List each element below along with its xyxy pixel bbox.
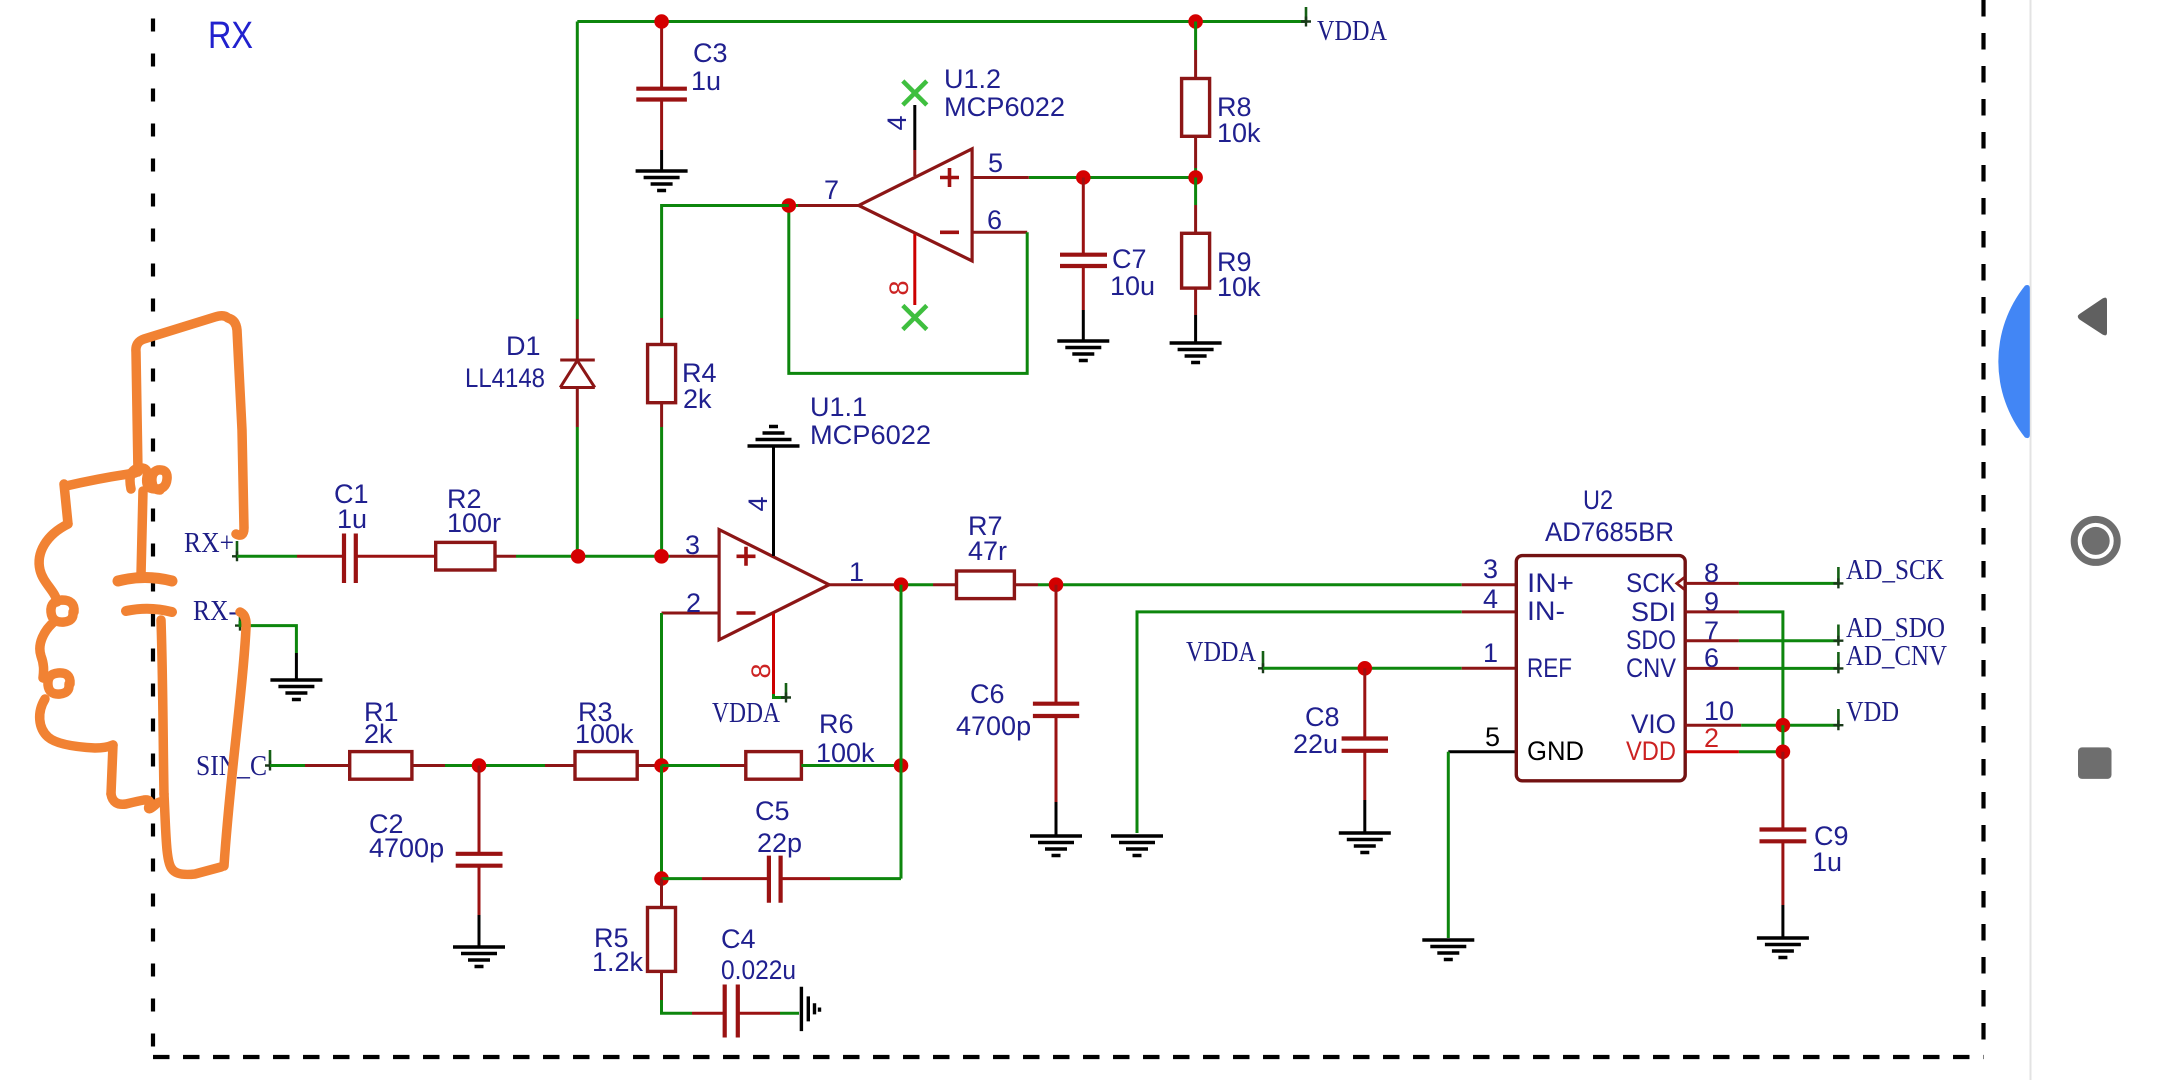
diode D1 xyxy=(560,319,595,427)
ground C9 xyxy=(1757,938,1809,958)
svg-text:1u: 1u xyxy=(337,504,367,534)
svg-text:C3: C3 xyxy=(693,38,728,68)
resistor R4 xyxy=(648,318,676,427)
node AD_SDO tick xyxy=(1837,625,1840,643)
ground C8 xyxy=(1339,833,1391,853)
pin 8 U1.1 xyxy=(772,614,775,695)
sketch tall box xyxy=(136,316,244,535)
sheet border left xyxy=(151,0,155,1056)
svg-text:4: 4 xyxy=(743,496,773,511)
pin 8 U1.2 xyxy=(913,234,916,305)
ground RX- xyxy=(270,680,322,700)
svg-text:10u: 10u xyxy=(1110,271,1155,301)
pin 4 U1.1 xyxy=(772,446,775,556)
svg-text:REF: REF xyxy=(1527,653,1572,683)
pin 1 stub U1.1 xyxy=(829,583,896,586)
sketch coil bumps xyxy=(39,524,68,602)
pin 10 VIO stub xyxy=(1685,724,1741,727)
wire REF stub xyxy=(1462,667,1517,670)
junction RX+ D1 xyxy=(571,549,586,564)
sheet border right xyxy=(1981,0,1985,1056)
wire R1 to R3 xyxy=(445,764,545,767)
junction R7 C6 xyxy=(1049,577,1064,592)
node AD_CNV tick xyxy=(1837,652,1840,670)
wire pin2 down xyxy=(660,613,663,766)
ground U2 GND xyxy=(1422,940,1474,960)
svg-text:1u: 1u xyxy=(1812,847,1842,877)
wire left rail down to C5 xyxy=(660,766,663,879)
sketch right curve xyxy=(224,612,246,866)
wire GND down xyxy=(1447,752,1450,938)
svg-text:AD_SCK: AD_SCK xyxy=(1846,554,1944,586)
svg-text:0.022u: 0.022u xyxy=(721,955,796,985)
svg-text:2: 2 xyxy=(686,588,701,618)
junction C7 top xyxy=(1076,170,1091,185)
wire pin8 VDDA tick xyxy=(774,694,787,698)
minus sign U1.2 xyxy=(940,231,959,235)
wire R4 to RX+ node xyxy=(660,427,663,556)
wire node1 down to C5 xyxy=(900,585,903,879)
sketch coil loop2 xyxy=(48,673,70,694)
wire pin7 to R4 xyxy=(662,206,789,319)
svg-text:10k: 10k xyxy=(1217,272,1261,302)
clock arrow SCK xyxy=(1677,577,1685,589)
svg-text:3: 3 xyxy=(685,530,700,560)
svg-text:C4: C4 xyxy=(721,924,756,954)
node SIN_C tick xyxy=(269,750,272,767)
sketch coil loop1 xyxy=(51,600,74,622)
capacitor C9 xyxy=(1760,752,1807,938)
svg-text:1: 1 xyxy=(849,557,864,587)
svg-text:SCK: SCK xyxy=(1626,568,1676,598)
svg-text:100r: 100r xyxy=(447,508,501,538)
nav handle blue half-disc xyxy=(1998,285,2029,438)
pin 7 SDO stub xyxy=(1685,639,1739,642)
wire CNV to AD_CNV xyxy=(1739,667,1839,670)
wire R5 to C4 xyxy=(662,1000,693,1013)
svg-text:3: 3 xyxy=(1483,554,1498,584)
ground C6 xyxy=(1030,836,1082,856)
wire VDDA to REF xyxy=(1263,667,1462,670)
svg-text:RX+: RX+ xyxy=(184,527,234,559)
sketch bottom squiggle xyxy=(111,794,164,809)
resistor R2 xyxy=(436,542,516,570)
capacitor C6 xyxy=(1033,585,1079,836)
no-connect X pin8 U1.2 xyxy=(903,306,927,330)
svg-text:100k: 100k xyxy=(816,738,875,768)
sketch coil bump3 xyxy=(40,699,113,748)
node VDDA top tick xyxy=(1305,7,1308,23)
svg-text:5: 5 xyxy=(1485,722,1500,752)
pin 8 SCK stub xyxy=(1685,582,1739,585)
svg-text:1.2k: 1.2k xyxy=(592,947,644,977)
wire SCK to AD_SCK xyxy=(1739,582,1839,585)
svg-text:4: 4 xyxy=(882,115,912,130)
node RX+ tick xyxy=(236,541,239,558)
junction SDI VIO xyxy=(1776,718,1791,733)
wire C4 to ground xyxy=(780,1012,799,1015)
svg-text:D1: D1 xyxy=(506,331,541,361)
pin 9 SDI stub xyxy=(1685,610,1739,613)
resistor R1 xyxy=(305,752,445,780)
svg-text:22p: 22p xyxy=(757,828,802,858)
wire pin2 to junction xyxy=(1739,750,1783,753)
wire SIN_C to R1 xyxy=(270,764,305,767)
svg-text:MCP6022: MCP6022 xyxy=(944,92,1065,122)
svg-text:VDD: VDD xyxy=(1846,696,1899,728)
minus sign U1.1 xyxy=(737,611,756,615)
svg-text:1: 1 xyxy=(1483,638,1498,668)
sketch mid vertical xyxy=(141,491,143,575)
svg-text:VDDA: VDDA xyxy=(1186,636,1256,668)
sketch mid horizontal xyxy=(66,473,135,486)
resistor R5 xyxy=(648,879,676,1000)
svg-text:RX-: RX- xyxy=(193,595,237,627)
nav back triangle xyxy=(2078,298,2107,336)
svg-text:AD7685BR: AD7685BR xyxy=(1545,517,1674,547)
nav bar separator xyxy=(2030,0,2032,1080)
svg-text:VDDA: VDDA xyxy=(712,697,780,729)
pin 5 stub U1.2 xyxy=(972,176,1029,179)
svg-text:2: 2 xyxy=(1704,723,1719,753)
nav recents square xyxy=(2078,747,2112,779)
junction R8 top xyxy=(1188,14,1203,29)
resistor R7 xyxy=(933,571,1038,599)
wire SDO to AD_SDO xyxy=(1739,639,1839,642)
capacitor C7 xyxy=(1060,178,1107,342)
svg-text:8: 8 xyxy=(746,663,776,678)
wire VIO to VDD label xyxy=(1741,724,1838,727)
pin 3 stub U1.1 xyxy=(670,555,719,558)
wire R7 to IN+ xyxy=(1038,583,1462,586)
svg-text:1u: 1u xyxy=(691,66,721,96)
svg-text:100k: 100k xyxy=(575,719,634,749)
svg-text:GND: GND xyxy=(1527,736,1584,766)
junction R8 R9 xyxy=(1188,170,1203,185)
ground C2 xyxy=(453,947,505,967)
wire VIO to VDD vertical xyxy=(1781,725,1784,752)
junction RX+ R4 xyxy=(654,549,669,564)
svg-text:LL4148: LL4148 xyxy=(465,363,545,393)
nav home circle xyxy=(2074,519,2117,562)
wire RX- to ground xyxy=(240,621,296,653)
wire IN+ stub xyxy=(1462,583,1517,586)
capacitor C5 xyxy=(662,856,902,903)
wire IN- net xyxy=(1462,610,1517,613)
junction R3 R6 xyxy=(654,758,669,773)
pin 6 CNV stub xyxy=(1685,667,1739,670)
svg-text:2k: 2k xyxy=(364,719,393,749)
svg-text:C5: C5 xyxy=(755,796,790,826)
annotation orange sketch xyxy=(39,316,246,875)
node RX- tick xyxy=(239,609,242,627)
svg-text:10: 10 xyxy=(1704,696,1734,726)
pin 2 VDD stub red xyxy=(1685,750,1739,753)
sketch left tick xyxy=(64,484,68,524)
resistor R8 xyxy=(1182,22,1210,178)
ground R9 xyxy=(1170,343,1222,363)
node VDD tick xyxy=(1837,709,1840,727)
wire RX- ground stem xyxy=(295,653,298,680)
resistor R6 xyxy=(662,752,902,780)
sketch cap plate lower xyxy=(126,609,172,612)
svg-text:AD_CNV: AD_CNV xyxy=(1846,640,1947,672)
sketch cap plate upper xyxy=(118,578,172,582)
svg-text:7: 7 xyxy=(824,175,839,205)
wire U1.2 feedback loop xyxy=(789,206,1027,374)
junction C5 left xyxy=(654,871,669,886)
capacitor C3 xyxy=(636,22,687,172)
resistor R9 xyxy=(1182,178,1210,344)
ground C4 sideways xyxy=(801,987,819,1031)
svg-text:6: 6 xyxy=(987,205,1002,235)
capacitor C2 xyxy=(456,766,503,948)
wire D1 branch vertical xyxy=(576,22,579,320)
svg-text:MCP6022: MCP6022 xyxy=(810,420,931,450)
no-connect X pin4 U1.2 xyxy=(903,81,927,105)
junction pin7 U1.2 xyxy=(782,198,797,213)
capacitor C4 xyxy=(692,985,780,1038)
junction R6 right xyxy=(894,758,909,773)
power flag ground-up pin4 U1.1 xyxy=(748,427,800,447)
svg-text:U1.2: U1.2 xyxy=(944,64,1001,94)
junction C8 top xyxy=(1358,661,1373,676)
node AD_SCK tick xyxy=(1837,567,1840,585)
svg-text:C7: C7 xyxy=(1112,244,1147,274)
svg-text:10k: 10k xyxy=(1217,118,1261,148)
wire GND pin5 stub xyxy=(1448,750,1516,753)
svg-text:VIO: VIO xyxy=(1631,709,1676,739)
svg-text:U2: U2 xyxy=(1583,485,1613,515)
svg-text:4700p: 4700p xyxy=(956,711,1031,741)
capacitor C1 xyxy=(297,534,436,584)
sketch double loop xyxy=(130,468,167,490)
wire node5 rail xyxy=(1029,176,1196,179)
pin 4 U1.2 xyxy=(913,105,916,176)
pin 2 stub U1.1 xyxy=(662,612,720,615)
wire D1 to RX+ node xyxy=(576,427,579,556)
ground C3 xyxy=(636,171,688,191)
sketch coil bump2 xyxy=(40,621,55,678)
junction C2 xyxy=(472,758,487,773)
svg-text:4700p: 4700p xyxy=(369,833,444,863)
svg-text:8: 8 xyxy=(884,280,914,295)
wire VDDA top rail xyxy=(577,20,1306,23)
svg-text:VDD: VDD xyxy=(1626,736,1676,766)
junction pin2 C9 xyxy=(1776,745,1791,760)
capacitor C8 xyxy=(1342,668,1388,833)
svg-text:4: 4 xyxy=(1483,584,1498,614)
ground C7 xyxy=(1057,341,1109,361)
resistor R3 xyxy=(545,752,662,780)
svg-text:CNV: CNV xyxy=(1626,653,1676,683)
junction C3 top xyxy=(654,14,669,29)
svg-text:SDO: SDO xyxy=(1626,625,1676,655)
pin 6 stub U1.2 xyxy=(972,231,1027,234)
svg-text:RX: RX xyxy=(208,15,253,57)
svg-text:22u: 22u xyxy=(1293,729,1338,759)
svg-text:47r: 47r xyxy=(968,536,1007,566)
plus sign U1.1 xyxy=(737,547,756,566)
svg-text:IN+: IN+ xyxy=(1527,568,1574,598)
op-amp U1.1 xyxy=(719,530,829,640)
sketch mid stroke down xyxy=(161,620,164,794)
svg-text:2k: 2k xyxy=(683,384,712,414)
pin 7 stub U1.2 xyxy=(798,204,859,207)
IC U2 AD7685BR box xyxy=(1516,556,1685,781)
op-amp U1.2 xyxy=(859,149,972,261)
svg-text:IN-: IN- xyxy=(1527,596,1565,626)
svg-text:C6: C6 xyxy=(970,679,1005,709)
node VDDA tick REF xyxy=(1262,651,1265,670)
svg-text:SDI: SDI xyxy=(1631,597,1676,627)
sketch bottom left edge xyxy=(111,745,113,794)
wire RX+ to C1 xyxy=(237,555,297,558)
plus sign U1.2 xyxy=(940,168,959,187)
ground IN- xyxy=(1111,836,1163,856)
wire R2 to pin3 xyxy=(516,555,670,558)
wire IN- to ground xyxy=(1137,612,1462,833)
sketch bottom U xyxy=(164,794,221,874)
wire pin1 to R7 xyxy=(896,583,933,586)
svg-text:5: 5 xyxy=(988,148,1003,178)
wire SDI down xyxy=(1739,612,1783,725)
wire pin7 to junction xyxy=(789,204,798,207)
junction pin1 node xyxy=(894,577,909,592)
svg-text:C8: C8 xyxy=(1305,702,1340,732)
sheet border bottom xyxy=(153,1055,1984,1059)
svg-text:U1.1: U1.1 xyxy=(810,392,867,422)
svg-text:VDDA: VDDA xyxy=(1317,15,1387,47)
svg-text:R6: R6 xyxy=(819,709,854,739)
